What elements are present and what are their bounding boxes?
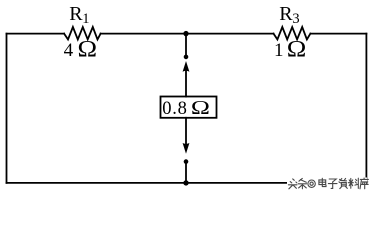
resistor box 0.8 ohm	[161, 97, 217, 118]
node terminal dot upper	[184, 55, 189, 60]
value 4 ohm	[64, 37, 97, 62]
svg-text:R: R	[69, 3, 83, 25]
svg-text:0.8: 0.8	[162, 99, 188, 119]
label R1	[69, 3, 89, 27]
wire right side	[365, 34, 367, 183]
svg-text:Ω: Ω	[77, 37, 97, 62]
svg-text:Ω: Ω	[191, 96, 210, 119]
watermark	[287, 178, 368, 190]
wire top-left segment	[7, 33, 65, 35]
wire left side	[6, 34, 8, 183]
resistor R1	[64, 27, 101, 39]
wire arrow shaft upper	[185, 71, 187, 97]
svg-text:3: 3	[292, 11, 299, 27]
node junction top	[183, 31, 188, 36]
node terminal dot lower	[184, 159, 189, 164]
value 0.8 ohm	[162, 96, 210, 119]
node junction bottom	[183, 180, 188, 185]
value 1 ohm	[274, 37, 306, 62]
wire middle branch lower	[185, 162, 187, 183]
label R3	[279, 3, 299, 27]
svg-text:R: R	[279, 3, 293, 25]
resistor R3	[274, 27, 311, 39]
current arrow down	[183, 143, 190, 154]
svg-text:1: 1	[274, 40, 284, 61]
wire top-right segment	[310, 33, 366, 35]
svg-text:1: 1	[82, 11, 89, 27]
svg-text:Ω: Ω	[287, 37, 307, 62]
wire arrow shaft lower	[185, 118, 187, 144]
wire middle branch upper	[185, 34, 187, 57]
svg-text:4: 4	[64, 40, 74, 61]
wire top-middle segment	[101, 33, 274, 35]
current arrow up	[183, 61, 190, 72]
wire bottom	[7, 182, 367, 184]
